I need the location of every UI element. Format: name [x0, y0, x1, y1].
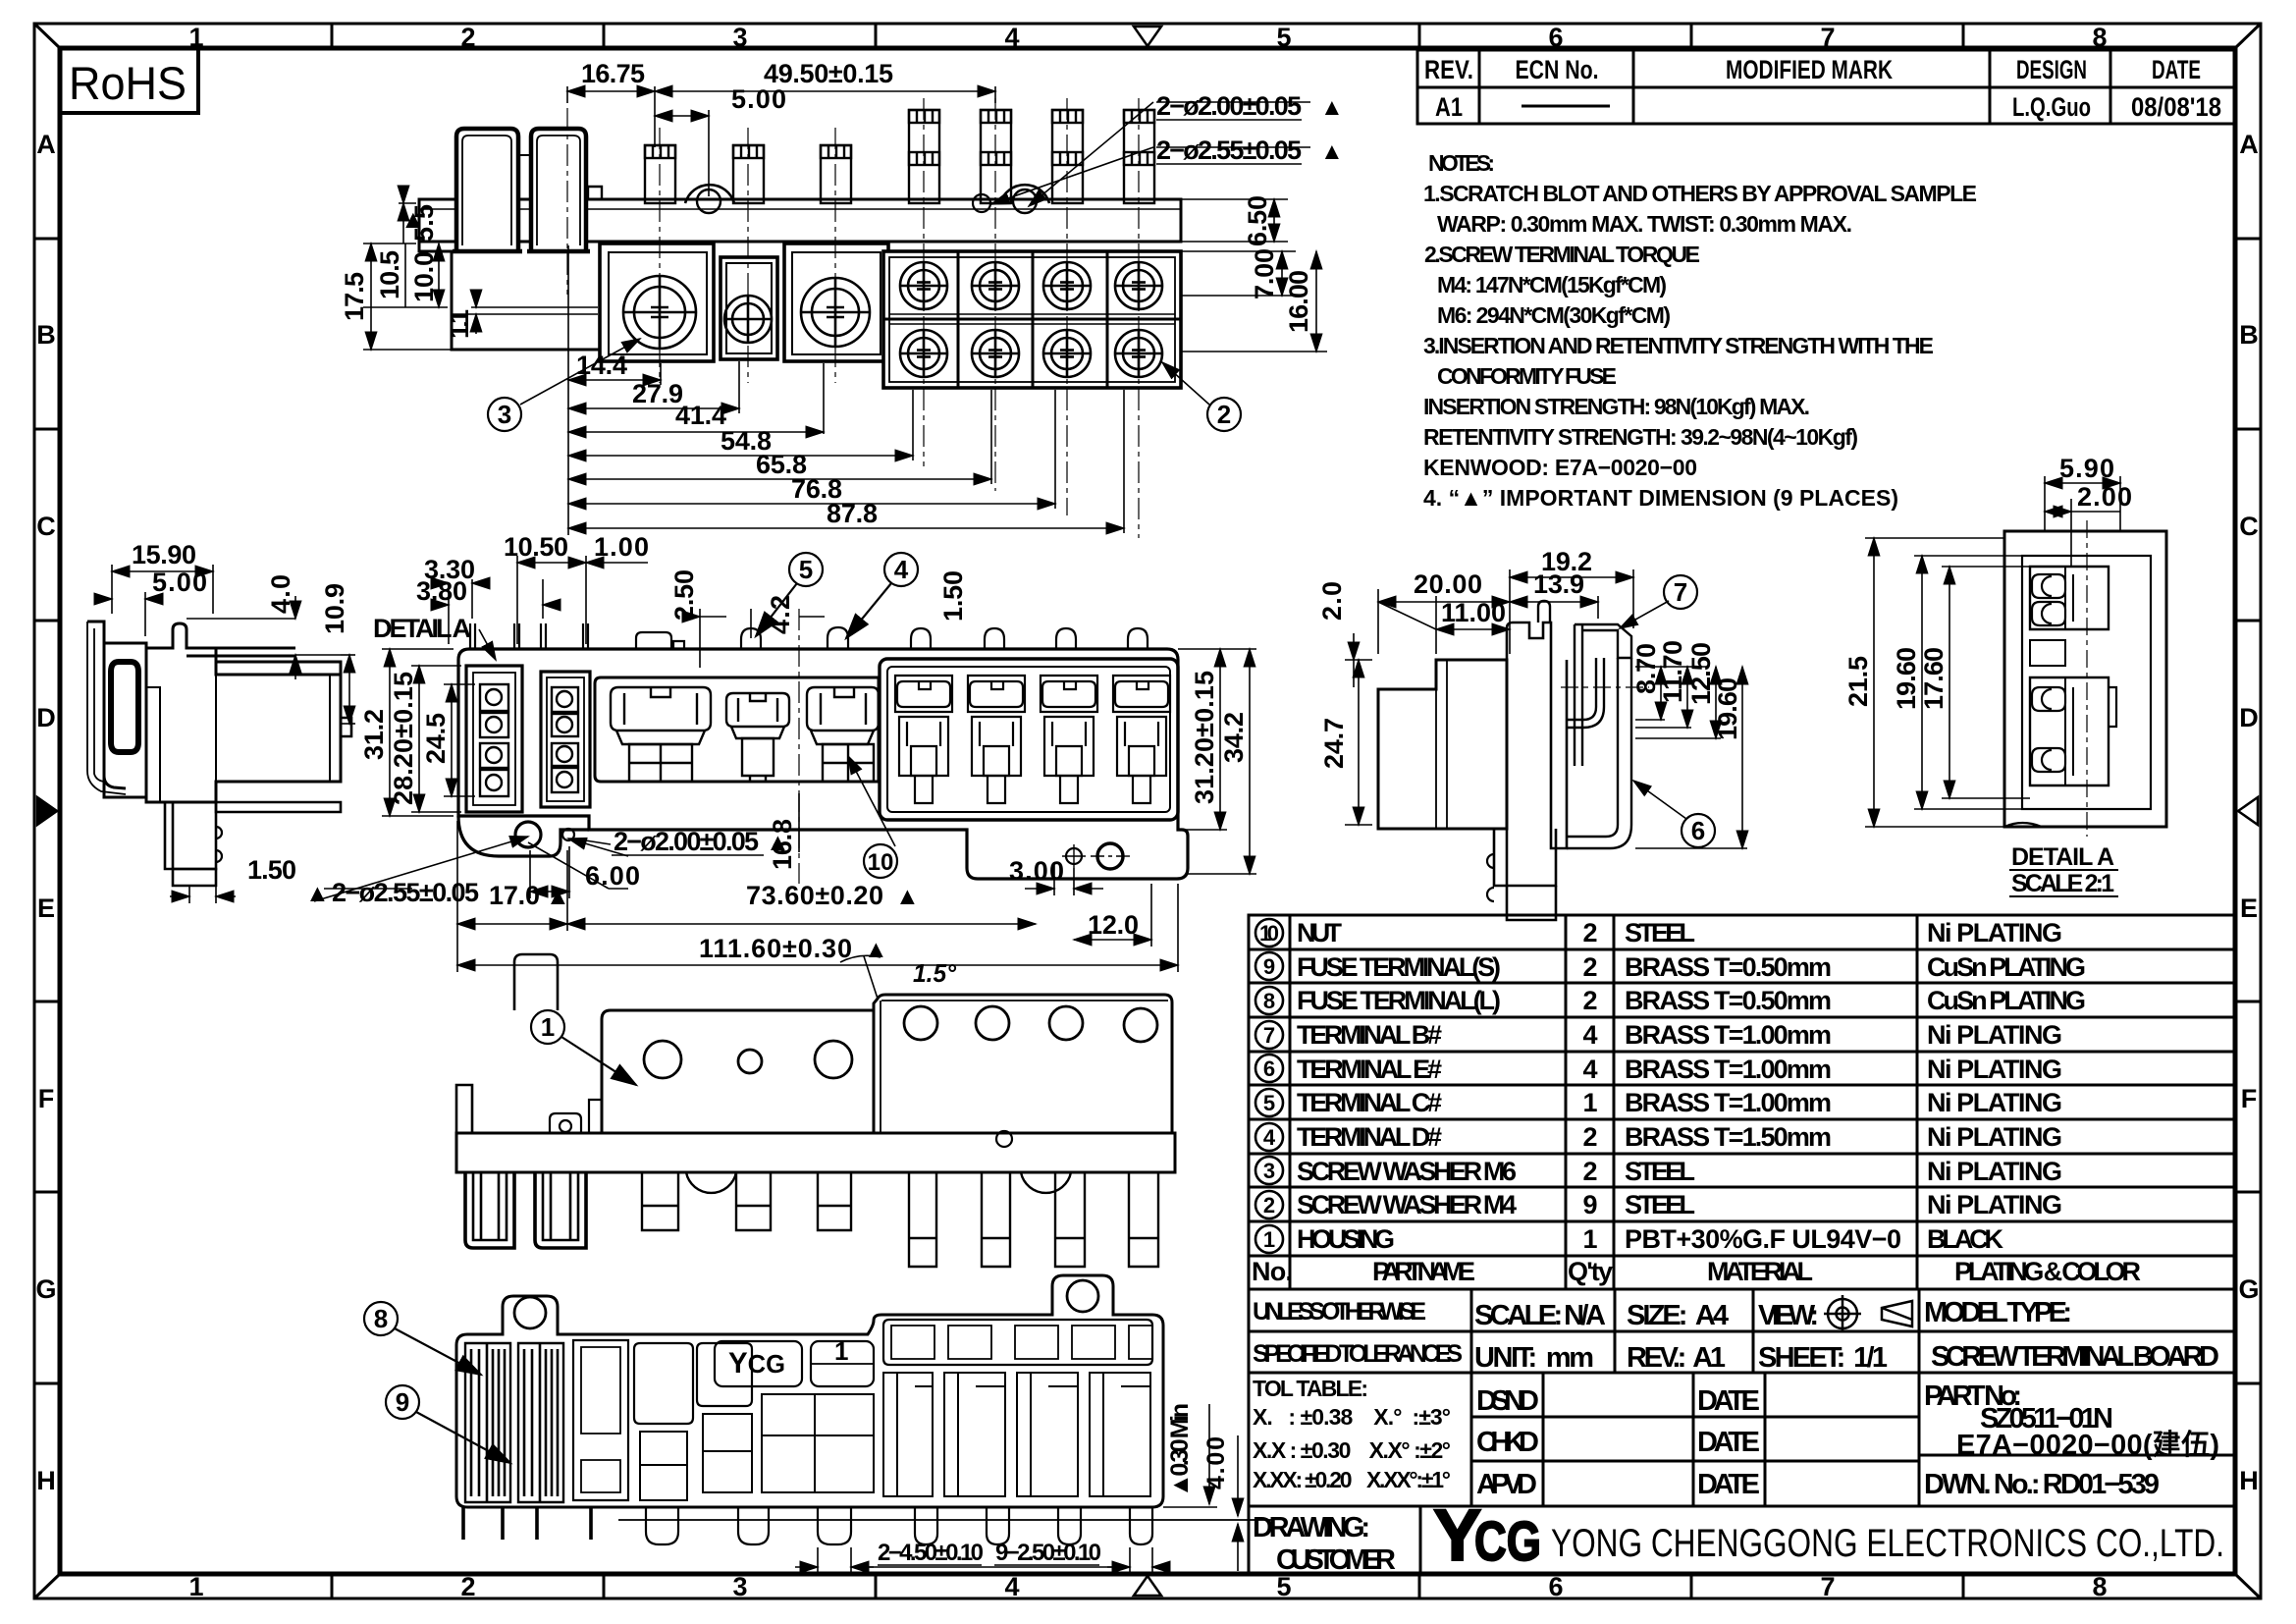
title block: [1249, 1289, 2235, 1574]
svg-text:DSND: DSND: [1476, 1385, 1539, 1417]
svg-text:A: A: [36, 130, 56, 159]
svg-text:KENWOOD: E7A−0020−00: KENWOOD: E7A−0020−00: [1423, 455, 1697, 480]
svg-text:7.00: 7.00: [1250, 248, 1279, 299]
plan fuse clips col 1: [895, 676, 952, 803]
back holes right: [904, 1006, 937, 1040]
plan fuse clips col 3: [1041, 676, 1097, 803]
svg-text:6: 6: [1548, 23, 1563, 52]
plan screw terminal 3: [807, 687, 879, 782]
svg-text:1.5°: 1.5°: [913, 958, 957, 988]
svg-text:1: 1: [834, 1336, 848, 1366]
svg-text:SCREW TERMINAL BOARD: SCREW TERMINAL BOARD: [1931, 1341, 2219, 1373]
plan lower left lug: [458, 816, 589, 856]
svg-text:7: 7: [1820, 23, 1835, 52]
back left tabs: [456, 1085, 472, 1133]
svg-text:10.0: 10.0: [409, 251, 439, 302]
bottom view: [456, 1275, 1273, 1544]
svg-text:▲: ▲: [546, 883, 570, 910]
svg-text:19.60: 19.60: [1892, 647, 1921, 710]
svg-text:1.50: 1.50: [938, 570, 968, 622]
svg-text:Ni PLATING: Ni PLATING: [1927, 1055, 2062, 1084]
svg-text:3.INSERTION AND RETENTIVITY: 3.INSERTION AND RETENTIVITY STRENGTH WIT…: [1423, 333, 1934, 358]
front view left tab 1: [454, 131, 520, 249]
svg-text:MODIFIED MARK: MODIFIED MARK: [1726, 55, 1893, 84]
detail A view: [2004, 520, 2166, 837]
svg-text:Ni PLATING: Ni PLATING: [1927, 1157, 2062, 1186]
svg-text:2: 2: [1582, 1122, 1597, 1152]
svg-text:17.60: 17.60: [1919, 647, 1949, 710]
plan top pins: [470, 623, 1148, 649]
svg-text:2−ø2.00±0.05: 2−ø2.00±0.05: [1156, 91, 1302, 121]
back tall pins: [909, 1172, 936, 1267]
plan fuse clips col 4: [1113, 676, 1170, 803]
RoHS mark: [60, 48, 198, 113]
svg-text:MODEL TYPE:: MODEL TYPE:: [1924, 1297, 2072, 1328]
svg-text:87.8: 87.8: [827, 499, 878, 528]
svg-text:TERMINAL C#: TERMINAL C#: [1297, 1088, 1442, 1117]
circled 4: [846, 553, 918, 638]
svg-text:7: 7: [1674, 577, 1687, 607]
svg-text:HOUSING: HOUSING: [1297, 1224, 1395, 1254]
svg-text:3: 3: [732, 1572, 747, 1601]
plan screw terminal middle: [726, 693, 789, 782]
svg-text:C: C: [2239, 512, 2259, 541]
bottom outline: [456, 1275, 1163, 1507]
circled 7: [1664, 575, 1697, 609]
svg-text:34.2: 34.2: [1219, 712, 1249, 763]
svg-text:10.50: 10.50: [504, 532, 568, 562]
svg-text:2.SCREW TERMINAL TORQUE: 2.SCREW TERMINAL TORQUE: [1424, 242, 1700, 267]
svg-text:111.60±0.30: 111.60±0.30: [699, 934, 852, 963]
svg-text:12.50: 12.50: [1686, 642, 1716, 705]
front view: [419, 110, 1181, 388]
bottom ladder dims: [568, 245, 1124, 535]
bottom left fuse slots: [465, 1343, 510, 1502]
short pins: [645, 145, 851, 203]
svg-text:8: 8: [374, 1304, 388, 1333]
circled 6: [1682, 814, 1715, 847]
svg-text:G: G: [35, 1274, 56, 1304]
svg-text:NUT: NUT: [1297, 918, 1343, 947]
svg-text:1: 1: [188, 1572, 203, 1601]
svg-text:11.00: 11.00: [1441, 598, 1506, 627]
svg-text:2: 2: [460, 23, 475, 52]
side tab strip: [87, 622, 126, 788]
svg-text:UNIT: mm: UNIT: mm: [1474, 1342, 1594, 1374]
svg-text:10: 10: [1259, 921, 1279, 946]
svg-text:CUSTOMER: CUSTOMER: [1276, 1544, 1396, 1576]
svg-text:CuSn PLATING: CuSn PLATING: [1927, 952, 2086, 982]
side tab block: [104, 643, 146, 797]
svg-text:B: B: [36, 320, 56, 350]
svg-text:M4: 147N*CM(15Kgf*CM): M4: 147N*CM(15Kgf*CM): [1437, 272, 1667, 298]
svg-text:2: 2: [1582, 986, 1597, 1015]
svg-text:2−ø2.55±0.05: 2−ø2.55±0.05: [332, 878, 479, 907]
screw washer M4 big: [801, 278, 870, 347]
plan lug holes: [515, 822, 541, 847]
side main block: [146, 623, 341, 802]
svg-text:RETENTIVITY STRENGTH: 39.2~98: RETENTIVITY STRENGTH: 39.2~98N(4~10Kgf): [1423, 424, 1858, 450]
side right nub: [341, 718, 351, 736]
svg-text:24.7: 24.7: [1319, 718, 1349, 769]
mounting ear 1: [685, 185, 734, 203]
svg-text:A: A: [2239, 130, 2259, 159]
svg-text:TOL TABLE:: TOL TABLE:: [1253, 1376, 1368, 1401]
svg-text:5: 5: [799, 555, 813, 584]
right side top structure: [1507, 623, 1551, 660]
svg-text:SCREW WASHER M4: SCREW WASHER M4: [1297, 1190, 1517, 1219]
svg-text:▲: ▲: [864, 936, 888, 963]
svg-text:CHKD: CHKD: [1476, 1427, 1539, 1458]
svg-text:2: 2: [1582, 1157, 1597, 1186]
svg-text:BRASS T=0.50mm: BRASS T=0.50mm: [1625, 952, 1832, 982]
svg-text:CG: CG: [1474, 1510, 1541, 1573]
svg-text:X. : ±0.38 X.° :±3°: X. : ±0.38 X.° :±3°: [1253, 1404, 1451, 1430]
back view: [456, 954, 1175, 1267]
svg-text:BRASS T=1.00mm: BRASS T=1.00mm: [1625, 1020, 1832, 1050]
front view dimensions: [363, 86, 1327, 352]
screw washer M6: [623, 276, 696, 349]
svg-text:M6: 294N*CM(30Kgf*CM): M6: 294N*CM(30Kgf*CM): [1437, 302, 1671, 328]
svg-text:4: 4: [1582, 1020, 1597, 1050]
svg-text:9: 9: [1582, 1190, 1597, 1219]
svg-text:41.4: 41.4: [675, 401, 726, 430]
svg-text:DATE: DATE: [1697, 1469, 1760, 1500]
svg-text:PBT+30%G.F UL94V−0: PBT+30%G.F UL94V−0: [1625, 1224, 1901, 1254]
svg-text:E: E: [2240, 893, 2258, 923]
svg-text:28.20±0.15: 28.20±0.15: [389, 672, 418, 805]
leader lines: [520, 102, 1310, 405]
svg-text:5: 5: [1263, 1091, 1275, 1115]
front view left tab 2: [529, 131, 588, 249]
plan screw terminal M6: [611, 687, 711, 782]
svg-text:24.5: 24.5: [421, 713, 451, 764]
svg-text:4: 4: [1004, 1572, 1019, 1601]
circled 1: [531, 1010, 636, 1085]
svg-text:NOTES:: NOTES:: [1428, 150, 1495, 176]
svg-text:31.2: 31.2: [359, 709, 389, 760]
svg-text:9: 9: [396, 1387, 409, 1417]
svg-text:16.75: 16.75: [581, 59, 645, 88]
right side dashed centerline: [1561, 686, 1649, 688]
svg-text:D: D: [2239, 703, 2259, 732]
svg-text:▲0.30 Min: ▲0.30 Min: [1166, 1403, 1194, 1497]
circled 9: [386, 1385, 510, 1463]
right side view: [1378, 601, 1649, 920]
svg-text:DATE: DATE: [1697, 1385, 1760, 1417]
svg-text:STEEL: STEEL: [1625, 918, 1695, 947]
svg-text:Ni PLATING: Ni PLATING: [1927, 1190, 2062, 1219]
back holes left: [644, 1041, 681, 1078]
screw block 3: [784, 244, 888, 361]
right side dim labels: [1414, 547, 1592, 627]
svg-text:2−ø2.55±0.05: 2−ø2.55±0.05: [1156, 135, 1302, 165]
left side view dims: [94, 565, 355, 903]
plan fuse block: [880, 659, 1178, 820]
tall pins: [909, 110, 1154, 203]
right side plates: [1551, 660, 1567, 848]
svg-text:DRAWING:: DRAWING:: [1253, 1512, 1370, 1543]
svg-text:▲: ▲: [895, 883, 920, 910]
svg-text:9−2.50±0.10: 9−2.50±0.10: [995, 1540, 1101, 1566]
bottom dims: [795, 1404, 1238, 1575]
back upper housing right (fuse section): [874, 995, 1172, 1133]
svg-text:2−ø2.00±0.05: 2−ø2.00±0.05: [614, 827, 759, 856]
svg-text:2: 2: [1582, 952, 1597, 982]
plan view: [458, 623, 1188, 879]
circled 8: [364, 1302, 481, 1375]
parts table: [1249, 915, 2235, 1289]
svg-text:4.2: 4.2: [766, 595, 795, 634]
svg-text:1.50: 1.50: [247, 855, 296, 885]
svg-text:1: 1: [1582, 1088, 1597, 1117]
svg-text:▲: ▲: [400, 204, 426, 234]
svg-text:1: 1: [1582, 1224, 1597, 1254]
svg-text:3: 3: [498, 400, 511, 429]
svg-text:2: 2: [1217, 400, 1231, 429]
company logo: [1433, 1494, 1541, 1576]
svg-text:DATE: DATE: [1697, 1427, 1760, 1458]
svg-text:8: 8: [2092, 1572, 2107, 1601]
svg-text:4: 4: [1582, 1055, 1597, 1084]
svg-text:BRASS T=1.50mm: BRASS T=1.50mm: [1625, 1122, 1832, 1152]
svg-text:MATERIAL: MATERIAL: [1707, 1257, 1813, 1286]
svg-text:12.0: 12.0: [1088, 910, 1139, 940]
terminal grid block: [883, 251, 1181, 388]
svg-text:RoHS: RoHS: [69, 57, 187, 109]
svg-text:E7A−0020−00(建伍): E7A−0020−00(建伍): [1956, 1429, 2219, 1461]
svg-text:SCALE 2:1: SCALE 2:1: [2011, 870, 2114, 897]
svg-text:5: 5: [1276, 23, 1291, 52]
svg-text:31.20±0.15: 31.20±0.15: [1190, 671, 1219, 804]
center marks: [1134, 27, 1161, 46]
svg-text:5.90: 5.90: [2059, 454, 2114, 483]
svg-text:FUSE TERMINAL(S): FUSE TERMINAL(S): [1297, 952, 1501, 982]
svg-text:STEEL: STEEL: [1625, 1157, 1695, 1186]
svg-text:10.9: 10.9: [320, 583, 349, 634]
svg-text:L.Q.Guo: L.Q.Guo: [2012, 92, 2091, 122]
svg-text:11.70: 11.70: [1658, 640, 1687, 703]
svg-text:5.00: 5.00: [731, 84, 786, 114]
svg-text:20.00: 20.00: [1414, 569, 1482, 599]
detail A dims: [1865, 476, 2120, 827]
svg-text:TERMINAL D#: TERMINAL D#: [1297, 1122, 1442, 1152]
back short pins: [642, 1172, 678, 1230]
svg-text:08/08'18: 08/08'18: [2131, 92, 2221, 122]
svg-text:G: G: [2238, 1274, 2259, 1304]
svg-text:3: 3: [732, 23, 747, 52]
svg-text:STEEL: STEEL: [1625, 1190, 1695, 1219]
svg-text:4: 4: [894, 555, 909, 584]
bottom ear holes: [514, 1297, 546, 1328]
svg-text:10.5: 10.5: [375, 250, 404, 299]
svg-text:4: 4: [1004, 23, 1019, 52]
plan dim labels: [305, 532, 1139, 963]
svg-text:2−4.50±0.10: 2−4.50±0.10: [878, 1540, 984, 1566]
svg-text:▲: ▲: [305, 880, 330, 907]
svg-text:VIEW:: VIEW:: [1758, 1300, 1819, 1331]
svg-text:X.X : ±0.30 X.X° :±2°: X.X : ±0.30 X.X° :±2°: [1253, 1437, 1451, 1463]
svg-text:1: 1: [1263, 1227, 1275, 1252]
svg-text:Q'ty: Q'ty: [1568, 1257, 1613, 1286]
back middle band: [456, 1133, 1175, 1172]
svg-text:UNLESS OTHERWISE: UNLESS OTHERWISE: [1253, 1298, 1426, 1326]
svg-text:4: 4: [1263, 1125, 1276, 1150]
svg-text:1.1: 1.1: [445, 309, 474, 339]
svg-text:BRASS T=0.50mm: BRASS T=0.50mm: [1625, 986, 1832, 1015]
svg-text:10: 10: [868, 849, 894, 876]
right side bottom feet: [1494, 829, 1556, 886]
svg-text:9: 9: [1263, 954, 1275, 979]
svg-text:Ni PLATING: Ni PLATING: [1927, 1088, 2062, 1117]
svg-text:13.9: 13.9: [1533, 569, 1584, 599]
plan fuse holder 1: [466, 666, 522, 812]
plan fuse holder 2: [541, 672, 590, 807]
front view centerlines: [567, 98, 1139, 538]
svg-text:7: 7: [1820, 1572, 1835, 1601]
underlines for leader labels: [1156, 119, 1302, 121]
svg-text:BLACK: BLACK: [1927, 1224, 2004, 1254]
svg-text:6.00: 6.00: [585, 861, 640, 891]
svg-text:WARP: 0.30mm MAX. TWIST: 0.3: WARP: 0.30mm MAX. TWIST: 0.30mm MAX.: [1437, 211, 1852, 237]
parts table circled numbers: [1255, 919, 1283, 1253]
bottom right slots: [883, 1320, 1152, 1365]
svg-text:4.0: 4.0: [266, 574, 295, 614]
plan body outline: [458, 649, 1188, 879]
DETAIL A leader: [479, 629, 496, 660]
svg-text:6.50: 6.50: [1243, 195, 1272, 246]
svg-text:17.0: 17.0: [489, 881, 540, 910]
svg-text:H: H: [36, 1466, 56, 1495]
left side view: [87, 622, 351, 886]
screw block 1 (M6): [600, 244, 714, 361]
svg-text:No.: No.: [1252, 1257, 1293, 1286]
svg-text:2: 2: [460, 1572, 475, 1601]
svg-text:DATE: DATE: [2152, 55, 2201, 84]
svg-text:F: F: [38, 1084, 55, 1113]
bottom left legs: [463, 1507, 591, 1540]
svg-text:REV.: REV.: [1424, 55, 1473, 84]
svg-text:16.00: 16.00: [1284, 270, 1313, 333]
svg-text:▲: ▲: [1320, 94, 1344, 121]
front view body top band: [419, 199, 1181, 242]
back upper housing left: [602, 1010, 874, 1133]
svg-text:PLATING & COLOR: PLATING & COLOR: [1954, 1257, 2141, 1286]
svg-text:DWN. No.: RD01−539: DWN. No.: RD01−539: [1924, 1469, 2160, 1500]
screw washer small: [724, 296, 772, 343]
svg-text:6: 6: [1263, 1056, 1275, 1081]
YCG box: [715, 1341, 802, 1386]
svg-text:5.00: 5.00: [152, 568, 207, 597]
svg-text:2.50: 2.50: [669, 569, 699, 621]
svg-text:CuSn PLATING: CuSn PLATING: [1927, 986, 2086, 1015]
svg-text:DESIGN: DESIGN: [2016, 55, 2087, 84]
circled 5: [756, 553, 823, 636]
svg-text:1: 1: [541, 1012, 555, 1042]
screw block 2: [721, 257, 777, 359]
svg-text:TERMINAL B#: TERMINAL B#: [1297, 1020, 1442, 1050]
svg-text:15.90: 15.90: [132, 540, 196, 569]
svg-text:2: 2: [1263, 1193, 1275, 1218]
svg-text:APVD: APVD: [1476, 1469, 1537, 1500]
svg-text:SCALE: N/A: SCALE: N/A: [1474, 1300, 1606, 1331]
front view dim labels: [576, 59, 1344, 528]
svg-text:8.70: 8.70: [1631, 643, 1661, 694]
svg-text:YCG: YCG: [728, 1347, 785, 1380]
1.5 degree slope tick: [864, 956, 878, 999]
svg-text:▲: ▲: [1320, 138, 1344, 165]
svg-text:2.00: 2.00: [2077, 482, 2132, 512]
svg-text:X.XX: ±0.20 X.XX°:±1°: X.XX: ±0.20 X.XX°:±1°: [1253, 1467, 1451, 1492]
svg-text:4.00: 4.00: [1202, 1436, 1230, 1489]
svg-text:BRASS T=1.00mm: BRASS T=1.00mm: [1625, 1088, 1832, 1117]
svg-text:SPECIFIED TOLERANCES: SPECIFIED TOLERANCES: [1253, 1340, 1463, 1368]
svg-text:Ni PLATING: Ni PLATING: [1927, 918, 2062, 947]
grid screws row1: [900, 262, 947, 309]
svg-text:SCREW WASHER M6: SCREW WASHER M6: [1297, 1157, 1517, 1186]
svg-text:14.4: 14.4: [576, 351, 627, 380]
svg-text:6: 6: [1691, 816, 1705, 845]
seating plane: [618, 1519, 1273, 1521]
circled 10: [864, 844, 897, 878]
view symbols in title block: [1824, 1295, 1912, 1332]
svg-text:REV.: A1: REV.: A1: [1627, 1342, 1726, 1374]
svg-text:INSERTION STRENGTH: 98N(10Kgf: INSERTION STRENGTH: 98N(10Kgf) MAX.: [1423, 394, 1810, 419]
plan middle cavity: [595, 677, 879, 782]
plan fuse clips col 2: [968, 676, 1025, 803]
svg-text:4. “▲” IMPORTANT DIMENSION: 4. “▲” IMPORTANT DIMENSION (9 PLACES): [1423, 485, 1898, 511]
notes: [1423, 150, 1977, 511]
svg-text:1.SCRATCH BLOT AND OTHERS: 1.SCRATCH BLOT AND OTHERS BY APPROVAL SA…: [1423, 181, 1977, 206]
side feet: [165, 802, 216, 869]
svg-text:F: F: [2241, 1084, 2258, 1113]
svg-text:2: 2: [1582, 918, 1597, 947]
right side dims: [1345, 569, 1747, 848]
svg-text:3.80: 3.80: [416, 576, 467, 606]
svg-text:8: 8: [1263, 989, 1275, 1013]
revision table: [1417, 50, 2235, 124]
svg-text:BRASS T=1.00mm: BRASS T=1.00mm: [1625, 1055, 1832, 1084]
svg-text:6: 6: [1548, 1572, 1563, 1601]
svg-text:SIZE: A4: SIZE: A4: [1627, 1300, 1729, 1331]
svg-text:D: D: [36, 703, 56, 732]
svg-text:A1: A1: [1435, 92, 1463, 122]
svg-text:B: B: [2239, 320, 2259, 350]
svg-text:17.5: 17.5: [340, 272, 369, 321]
mounting ear 2: [1000, 185, 1049, 203]
right side main block: [1378, 660, 1507, 829]
svg-text:8: 8: [2092, 23, 2107, 52]
circled 3: [488, 398, 521, 431]
bottom pins: [646, 1507, 1152, 1544]
plan view centerline: [798, 609, 800, 884]
svg-text:3.00: 3.00: [1009, 856, 1064, 886]
circled 2: [1207, 398, 1241, 431]
svg-text:H: H: [2239, 1466, 2259, 1495]
svg-text:YONG CHENGGONG ELECTRONICS: YONG CHENGGONG ELECTRONICS CO.,LTD.: [1551, 1522, 2224, 1565]
1 box: [811, 1341, 874, 1386]
svg-text:16.8: 16.8: [768, 819, 797, 870]
svg-text:Ni PLATING: Ni PLATING: [1927, 1020, 2062, 1050]
svg-text:ECN No.: ECN No.: [1516, 55, 1599, 84]
svg-text:CONFORMITY FUSE: CONFORMITY FUSE: [1437, 363, 1617, 389]
svg-text:21.5: 21.5: [1843, 656, 1873, 707]
back small boss: [560, 1120, 571, 1132]
svg-text:SHEET: 1/1: SHEET: 1/1: [1758, 1342, 1888, 1374]
svg-text:TERMINAL E#: TERMINAL E#: [1297, 1055, 1442, 1084]
svg-text:E: E: [37, 893, 55, 923]
plan view dims: [314, 556, 1256, 972]
